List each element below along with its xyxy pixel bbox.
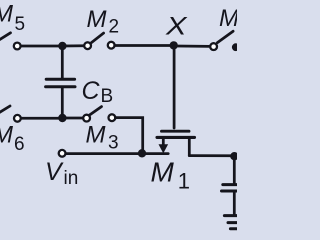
label M3 — [86, 122, 119, 154]
svg-text:C: C — [82, 77, 101, 105]
wire top rail to M4 — [176, 45, 210, 48]
label V_in — [45, 158, 78, 189]
node junction V_in / M3 — [138, 149, 146, 157]
node junction C_B bottom — [58, 114, 66, 122]
wire cap to ground — [233, 193, 236, 215]
svg-text:M: M — [0, 1, 13, 28]
wire drain to output — [189, 154, 233, 157]
wire top rail left segment — [21, 45, 60, 48]
label M1 — [151, 157, 191, 194]
ground — [224, 216, 239, 229]
label C_B — [82, 77, 114, 107]
svg-text:1: 1 — [178, 169, 190, 194]
switch M3 — [83, 107, 115, 122]
wire V_in rail — [66, 152, 168, 155]
terminal V_in — [59, 150, 66, 157]
node output junction — [230, 152, 238, 160]
svg-text:2: 2 — [109, 17, 120, 38]
svg-text:M: M — [151, 157, 175, 188]
label M6 — [0, 122, 25, 156]
wire C_B top lead — [61, 46, 64, 78]
node junction C_B top — [58, 42, 66, 50]
capacitor C_H (output, cut at edge) — [222, 185, 240, 191]
switch M4 — [210, 31, 240, 51]
node X junction — [170, 41, 178, 49]
svg-text:X: X — [165, 13, 188, 41]
svg-text:5: 5 — [15, 14, 26, 35]
svg-text:M: M — [0, 122, 13, 149]
svg-text:M: M — [219, 5, 237, 32]
switch M6 — [0, 106, 21, 122]
svg-text:M: M — [86, 122, 106, 149]
wire C_B bottom lead — [61, 88, 64, 118]
wire mid rail middle segment — [62, 117, 83, 120]
svg-text:B: B — [101, 86, 114, 107]
transistor M1 — [157, 46, 195, 156]
svg-text:in: in — [64, 168, 79, 189]
switch M5 — [0, 33, 21, 50]
svg-text:6: 6 — [14, 134, 25, 155]
svg-text:3: 3 — [108, 133, 119, 154]
switch M2 — [84, 33, 114, 49]
wire top rail to node X — [115, 44, 172, 47]
svg-text:V: V — [45, 158, 64, 186]
label M5 — [0, 1, 25, 36]
wire M3 to V_in rail (L shape) — [115, 118, 142, 152]
wire top rail middle segment — [62, 44, 84, 47]
wire output cap lead — [233, 156, 236, 183]
svg-text:M: M — [87, 6, 107, 33]
label M2 — [87, 6, 120, 38]
wire mid rail left segment — [21, 117, 59, 120]
capacitor CB — [46, 79, 75, 87]
